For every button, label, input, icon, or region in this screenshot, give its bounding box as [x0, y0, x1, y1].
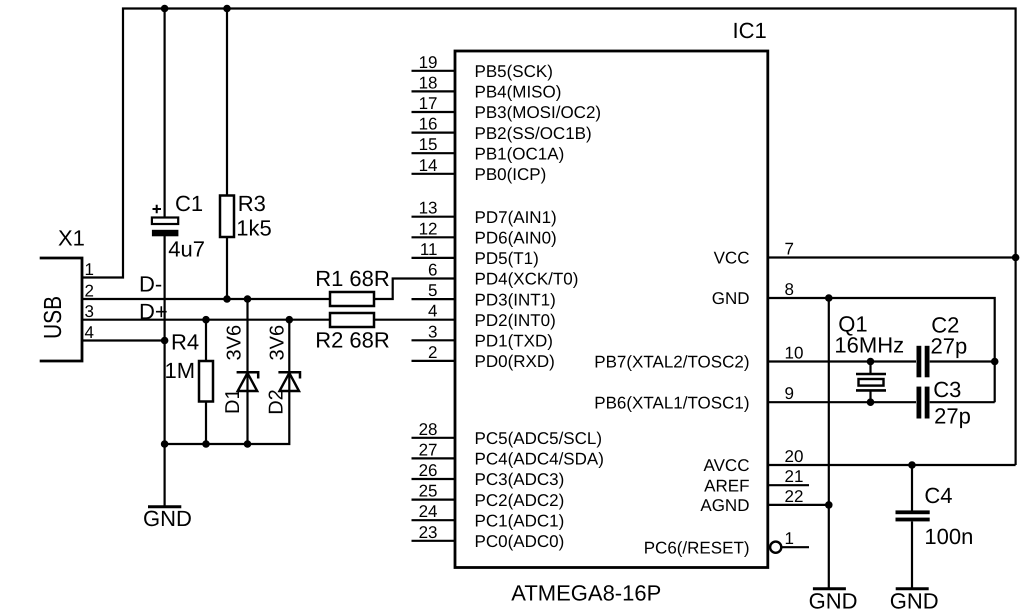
- wire D2 vertical and bottom rail: [165, 320, 290, 444]
- wire D1 vertical: [246, 299, 248, 444]
- svg-text:R1 68R: R1 68R: [315, 266, 390, 291]
- svg-text:PC1(ADC1): PC1(ADC1): [475, 511, 565, 530]
- wire C1 bottom to GND vertical: [164, 236, 166, 506]
- crystal Q1: [856, 374, 886, 390]
- svg-text:8: 8: [785, 280, 794, 299]
- svg-text:GND: GND: [712, 289, 750, 308]
- diode D2 zener: [278, 372, 300, 391]
- junction dot pin4/GND net: [161, 337, 169, 345]
- wire R4 top: [205, 320, 207, 361]
- wire pin17 stub: [412, 111, 457, 113]
- svg-text:R3: R3: [238, 191, 266, 216]
- svg-text:R4: R4: [171, 330, 199, 355]
- svg-text:PC2(ADC2): PC2(ADC2): [475, 491, 565, 510]
- junction dot VCC right: [1012, 254, 1020, 262]
- svg-text:PB7(XTAL2/TOSC2): PB7(XTAL2/TOSC2): [594, 353, 749, 372]
- svg-text:GND: GND: [890, 589, 939, 614]
- junction dot AVCC/C4: [908, 461, 916, 469]
- wire R3 top: [226, 9, 228, 196]
- svg-text:1: 1: [785, 529, 794, 548]
- wire GND pin8 line with right corner down: [768, 298, 995, 402]
- svg-text:PB5(SCK): PB5(SCK): [475, 62, 553, 81]
- svg-text:3: 3: [85, 302, 94, 321]
- svg-text:GND: GND: [143, 506, 192, 531]
- connector X1 USB body: [40, 258, 82, 361]
- wire pin14 stub: [412, 173, 457, 175]
- wire R3 bottom: [226, 237, 228, 299]
- svg-text:C3: C3: [933, 377, 961, 402]
- svg-text:PD2(INT0): PD2(INT0): [475, 311, 556, 330]
- ground symbol right 1: [809, 589, 858, 614]
- svg-text:IC1: IC1: [733, 18, 767, 43]
- ground symbol right 2: [890, 589, 939, 614]
- wire pin23 stub: [412, 540, 457, 542]
- wire pin10 XTAL2 line left: [768, 360, 916, 362]
- svg-text:7: 7: [785, 240, 794, 259]
- svg-text:25: 25: [419, 482, 438, 501]
- svg-text:4: 4: [85, 323, 94, 342]
- svg-text:20: 20: [785, 447, 804, 466]
- junction dot bottom rail left: [161, 440, 169, 448]
- svg-text:PB2(SS/OC1B): PB2(SS/OC1B): [475, 124, 592, 143]
- wire pin3 stub: [412, 339, 457, 341]
- junction dot crystal top: [867, 358, 875, 366]
- wire C1 net vertical top: [164, 9, 166, 218]
- diode D1 zener: [237, 372, 259, 391]
- svg-text:PB3(MOSI/OC2): PB3(MOSI/OC2): [475, 103, 602, 122]
- svg-text:D2: D2: [266, 389, 288, 415]
- wire pin28 stub: [412, 437, 457, 439]
- junction dot D1/D-: [244, 295, 252, 303]
- wire crystal top stub: [869, 362, 871, 375]
- wire pin26 stub: [412, 478, 457, 480]
- junction dot GND line: [825, 294, 833, 302]
- wire AREF pin21 stub: [768, 484, 809, 486]
- junction dot D2/D+: [286, 316, 294, 324]
- wire pin15 stub: [412, 152, 457, 154]
- junction dot R3/D-: [223, 295, 231, 303]
- junction dot top rail C1: [161, 5, 169, 13]
- svg-text:24: 24: [419, 502, 438, 521]
- svg-text:17: 17: [419, 94, 438, 113]
- svg-text:PB0(ICP): PB0(ICP): [475, 165, 547, 184]
- svg-text:PC5(ADC5/SCL): PC5(ADC5/SCL): [475, 429, 603, 448]
- wire USB pin4 line: [82, 339, 165, 341]
- svg-text:28: 28: [419, 420, 438, 439]
- svg-text:26: 26: [419, 461, 438, 480]
- svg-text:C4: C4: [924, 483, 952, 508]
- wire C4 vertical bottom: [911, 522, 913, 588]
- svg-text:16MHz: 16MHz: [834, 332, 904, 357]
- svg-text:1M: 1M: [165, 358, 196, 383]
- wire pin2 stub: [412, 360, 457, 362]
- svg-text:PB4(MISO): PB4(MISO): [475, 83, 562, 102]
- capacitor C2: [917, 346, 930, 378]
- wire pin16 stub: [412, 132, 457, 134]
- svg-text:PD1(TXD): PD1(TXD): [475, 332, 553, 351]
- svg-text:PC0(ADC0): PC0(ADC0): [475, 532, 565, 551]
- svg-text:22: 22: [785, 487, 804, 506]
- wire AVCC pin20 line: [768, 464, 1016, 466]
- svg-text:PC6(/RESET): PC6(/RESET): [644, 538, 750, 557]
- svg-text:27p: 27p: [931, 334, 968, 359]
- wire pin9 XTAL1 line left: [768, 401, 916, 403]
- wire R1 output to pin6: [374, 279, 456, 300]
- svg-text:3V6: 3V6: [267, 325, 289, 361]
- svg-text:AGND: AGND: [700, 496, 749, 515]
- wire pin27 stub: [412, 457, 457, 459]
- wire R2 output to pin4: [374, 319, 456, 321]
- wire pin10 XTAL2 line right: [930, 360, 995, 362]
- svg-text:3: 3: [428, 322, 437, 341]
- svg-text:VCC: VCC: [714, 249, 750, 268]
- junction dot bottom rail D1: [244, 440, 252, 448]
- wire GND vertical right: [828, 298, 830, 588]
- svg-text:PD7(AIN1): PD7(AIN1): [475, 208, 557, 227]
- svg-text:PD3(INT1): PD3(INT1): [475, 290, 556, 309]
- wire pin18 stub: [412, 90, 457, 92]
- svg-text:15: 15: [419, 135, 438, 154]
- svg-text:PD6(AIN0): PD6(AIN0): [475, 229, 557, 248]
- capacitor C4: [896, 510, 930, 521]
- svg-text:13: 13: [419, 199, 438, 218]
- svg-text:PD0(RXD): PD0(RXD): [475, 352, 555, 371]
- wire VCC pin7 line: [768, 256, 1016, 258]
- svg-text:D1: D1: [222, 388, 244, 414]
- svg-text:11: 11: [420, 240, 438, 259]
- svg-text:12: 12: [419, 219, 438, 238]
- svg-text:21: 21: [785, 467, 804, 486]
- wire pin13 stub: [412, 216, 457, 218]
- svg-text:4u7: 4u7: [168, 237, 205, 262]
- svg-text:R2 68R: R2 68R: [315, 328, 390, 353]
- junction dot pin10/right vertical: [991, 358, 999, 366]
- pin 1 inversion bubble: [770, 542, 781, 553]
- svg-text:5: 5: [428, 281, 437, 300]
- wire pin24 stub: [412, 519, 457, 521]
- svg-text:27: 27: [419, 440, 438, 459]
- junction dot top rail R3: [223, 5, 231, 13]
- svg-text:1: 1: [85, 260, 94, 279]
- svg-text:27p: 27p: [934, 404, 971, 429]
- svg-text:4: 4: [428, 302, 437, 321]
- svg-text:3V6: 3V6: [224, 325, 246, 361]
- svg-text:PB6(XTAL1/TOSC1): PB6(XTAL1/TOSC1): [594, 393, 749, 412]
- wire D+ line: [82, 319, 330, 321]
- svg-text:23: 23: [419, 523, 438, 542]
- svg-text:14: 14: [419, 156, 438, 175]
- capacitor C3: [917, 387, 930, 419]
- svg-text:PD4(XCK/T0): PD4(XCK/T0): [475, 270, 579, 289]
- svg-text:18: 18: [419, 73, 438, 92]
- wire crystal bottom stub: [869, 391, 871, 403]
- svg-text:AREF: AREF: [704, 476, 749, 495]
- svg-text:D+: D+: [139, 299, 168, 324]
- IC IC1 ATMEGA8 body: [455, 51, 768, 568]
- resistor R2: [330, 313, 374, 327]
- svg-text:16: 16: [419, 115, 438, 134]
- svg-text:10: 10: [785, 344, 804, 363]
- svg-text:2: 2: [428, 343, 437, 362]
- junction dot R4/D+: [202, 316, 210, 324]
- junction dot AGND: [825, 501, 833, 509]
- svg-text:C1: C1: [175, 191, 203, 216]
- svg-text:PC4(ADC4/SDA): PC4(ADC4/SDA): [475, 450, 604, 469]
- svg-text:9: 9: [785, 384, 794, 403]
- svg-text:6: 6: [428, 261, 437, 280]
- svg-text:1k5: 1k5: [236, 216, 271, 241]
- svg-text:GND: GND: [809, 589, 858, 614]
- ground symbol left: [143, 506, 192, 531]
- junction dot crystal bottom: [867, 398, 875, 406]
- svg-text:100n: 100n: [924, 524, 973, 549]
- wire pin5 stub: [412, 298, 457, 300]
- wire pin12 stub: [412, 236, 457, 238]
- resistor R3: [220, 196, 234, 238]
- wire AGND pin22 line: [768, 504, 829, 506]
- svg-text:2: 2: [85, 282, 94, 301]
- resistor R1: [330, 292, 374, 306]
- wire C4 vertical top: [911, 465, 913, 511]
- svg-text:PB1(OC1A): PB1(OC1A): [475, 144, 565, 163]
- svg-text:X1: X1: [58, 226, 85, 251]
- wire pin25 stub: [412, 499, 457, 501]
- wire D- line: [82, 298, 330, 300]
- svg-text:USB: USB: [40, 296, 67, 339]
- capacitor C1 polarized: [152, 205, 179, 237]
- wire R4 bottom: [205, 402, 207, 445]
- wire pin11 stub: [412, 257, 457, 259]
- svg-text:ATMEGA8-16P: ATMEGA8-16P: [511, 581, 661, 606]
- wire RESET pin1 stub: [781, 546, 809, 548]
- svg-text:PC3(ADC3): PC3(ADC3): [475, 470, 565, 489]
- wire top rail / left vertical / pin1 riser / right vertical: [82, 9, 1016, 466]
- junction dot bottom rail R4: [202, 440, 210, 448]
- svg-text:D-: D-: [139, 272, 162, 297]
- svg-text:19: 19: [419, 53, 438, 72]
- svg-text:AVCC: AVCC: [704, 456, 750, 475]
- wire pin19 stub: [412, 70, 457, 72]
- resistor R4: [199, 361, 213, 402]
- wire pin9 XTAL1 line right: [930, 401, 995, 403]
- svg-text:PD5(T1): PD5(T1): [475, 249, 539, 268]
